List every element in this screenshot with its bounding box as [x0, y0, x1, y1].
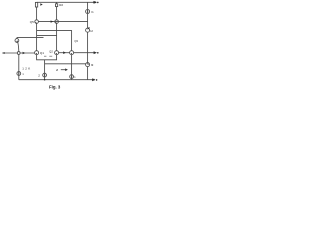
- wire Q2 base to Q3: [59, 52, 70, 54]
- current source I5: [70, 75, 74, 79]
- wire I6 to ground rail: [18, 75, 20, 79]
- node input terminal: [3, 52, 5, 54]
- transistor Q1: [35, 51, 39, 55]
- wire L2 to Q3 collector: [37, 31, 72, 51]
- transistor Q6: [55, 20, 59, 24]
- wire V5 Q8 down through input node: [18, 42, 19, 71]
- wire top rail VCC: [37, 1, 94, 3]
- wire V4 I1 to Q7: [87, 14, 89, 29]
- svg-text:Q1: Q1: [40, 51, 44, 55]
- node input junction circle: [17, 52, 20, 55]
- svg-text:12K: 12K: [22, 66, 31, 70]
- wire V4 Q7 down to Q4: [87, 32, 89, 62]
- resistor R2: [56, 2, 58, 20]
- wire V2 Q6 down to Q2: [56, 23, 58, 50]
- wire I2 to rail: [44, 77, 46, 80]
- node arrowhead tail annotation: [65, 68, 68, 71]
- transistor Q5: [35, 20, 39, 24]
- label P at R1: [40, 3, 42, 6]
- wire branch to Q4 base: [45, 63, 86, 65]
- node arrowhead ground end: [92, 78, 95, 81]
- node arrow ground-right: [92, 79, 95, 81]
- svg-text:1: 1: [22, 73, 24, 76]
- node arrowhead input: [23, 52, 26, 54]
- wire dash under Q1: [44, 55, 46, 57]
- node arrowhead output end: [94, 51, 97, 54]
- svg-text:R2: R2: [59, 3, 63, 7]
- wire ground rail: [19, 79, 93, 81]
- svg-text:I1: I1: [91, 10, 94, 14]
- transistor Q7 emitter mark: [87, 27, 90, 30]
- transistor Q4 emitter mark: [87, 63, 89, 65]
- transistor Q3 emitter mark: [71, 53, 73, 55]
- transistor Q4: [86, 63, 90, 67]
- wire L1 Q5 to V4: [38, 21, 87, 23]
- wire L4 from Q8: [17, 37, 44, 39]
- wire V6 tail: [44, 60, 46, 73]
- node arrowhead L1: [51, 20, 54, 22]
- svg-text:2l: 2l: [56, 68, 58, 72]
- svg-text:I3: I3: [91, 63, 94, 67]
- node arrowhead Q2-Q3 link: [63, 51, 66, 54]
- wire I5 to rail: [71, 79, 73, 80]
- svg-text:1: 1: [74, 76, 76, 79]
- current source I1: [86, 10, 90, 14]
- node junction dot tail: [44, 79, 46, 81]
- wire R1 to Q5: [36, 7, 38, 20]
- transistor Q1 emitter mark: [36, 53, 38, 55]
- wire dash under Q2: [49, 55, 52, 57]
- node arrowhead top rail end: [94, 1, 97, 4]
- svg-text:Q5: Q5: [30, 20, 34, 24]
- current source I2: [43, 73, 47, 77]
- wire V1 Q5 down to Q1: [36, 23, 38, 50]
- transistor Q2 emitter mark: [56, 53, 58, 55]
- transistor Q5 emitter mark: [35, 22, 37, 24]
- wire V4 Q4 to ground rail: [87, 67, 89, 80]
- svg-text:Q3: Q3: [74, 39, 78, 43]
- wire V4 top: [87, 2, 89, 9]
- transistor Q7: [86, 28, 90, 32]
- wire arrow to Q3 leg: [61, 69, 66, 71]
- transistor Q3: [70, 51, 74, 55]
- svg-text:Fig. 3: Fig. 3: [49, 85, 61, 90]
- transistor Q6 emitter mark: [55, 22, 57, 24]
- transistor Q2: [55, 51, 59, 55]
- svg-text:2: 2: [38, 73, 40, 77]
- svg-text:I2: I2: [90, 29, 93, 33]
- transistor Q8 emitter mark: [16, 41, 18, 43]
- wire input: [2, 52, 34, 54]
- transistor Q8: [16, 38, 18, 39]
- resistor R1: [35, 2, 37, 7]
- wire output: [74, 52, 94, 54]
- wire V3 Q3 emitter down: [71, 55, 73, 75]
- svg-text:Q2: Q2: [49, 49, 53, 53]
- wire L3: [37, 35, 57, 37]
- node arrow top-right: [93, 1, 96, 3]
- current source I6: [17, 72, 21, 76]
- wire Q1 Q2 emitters: [37, 55, 57, 60]
